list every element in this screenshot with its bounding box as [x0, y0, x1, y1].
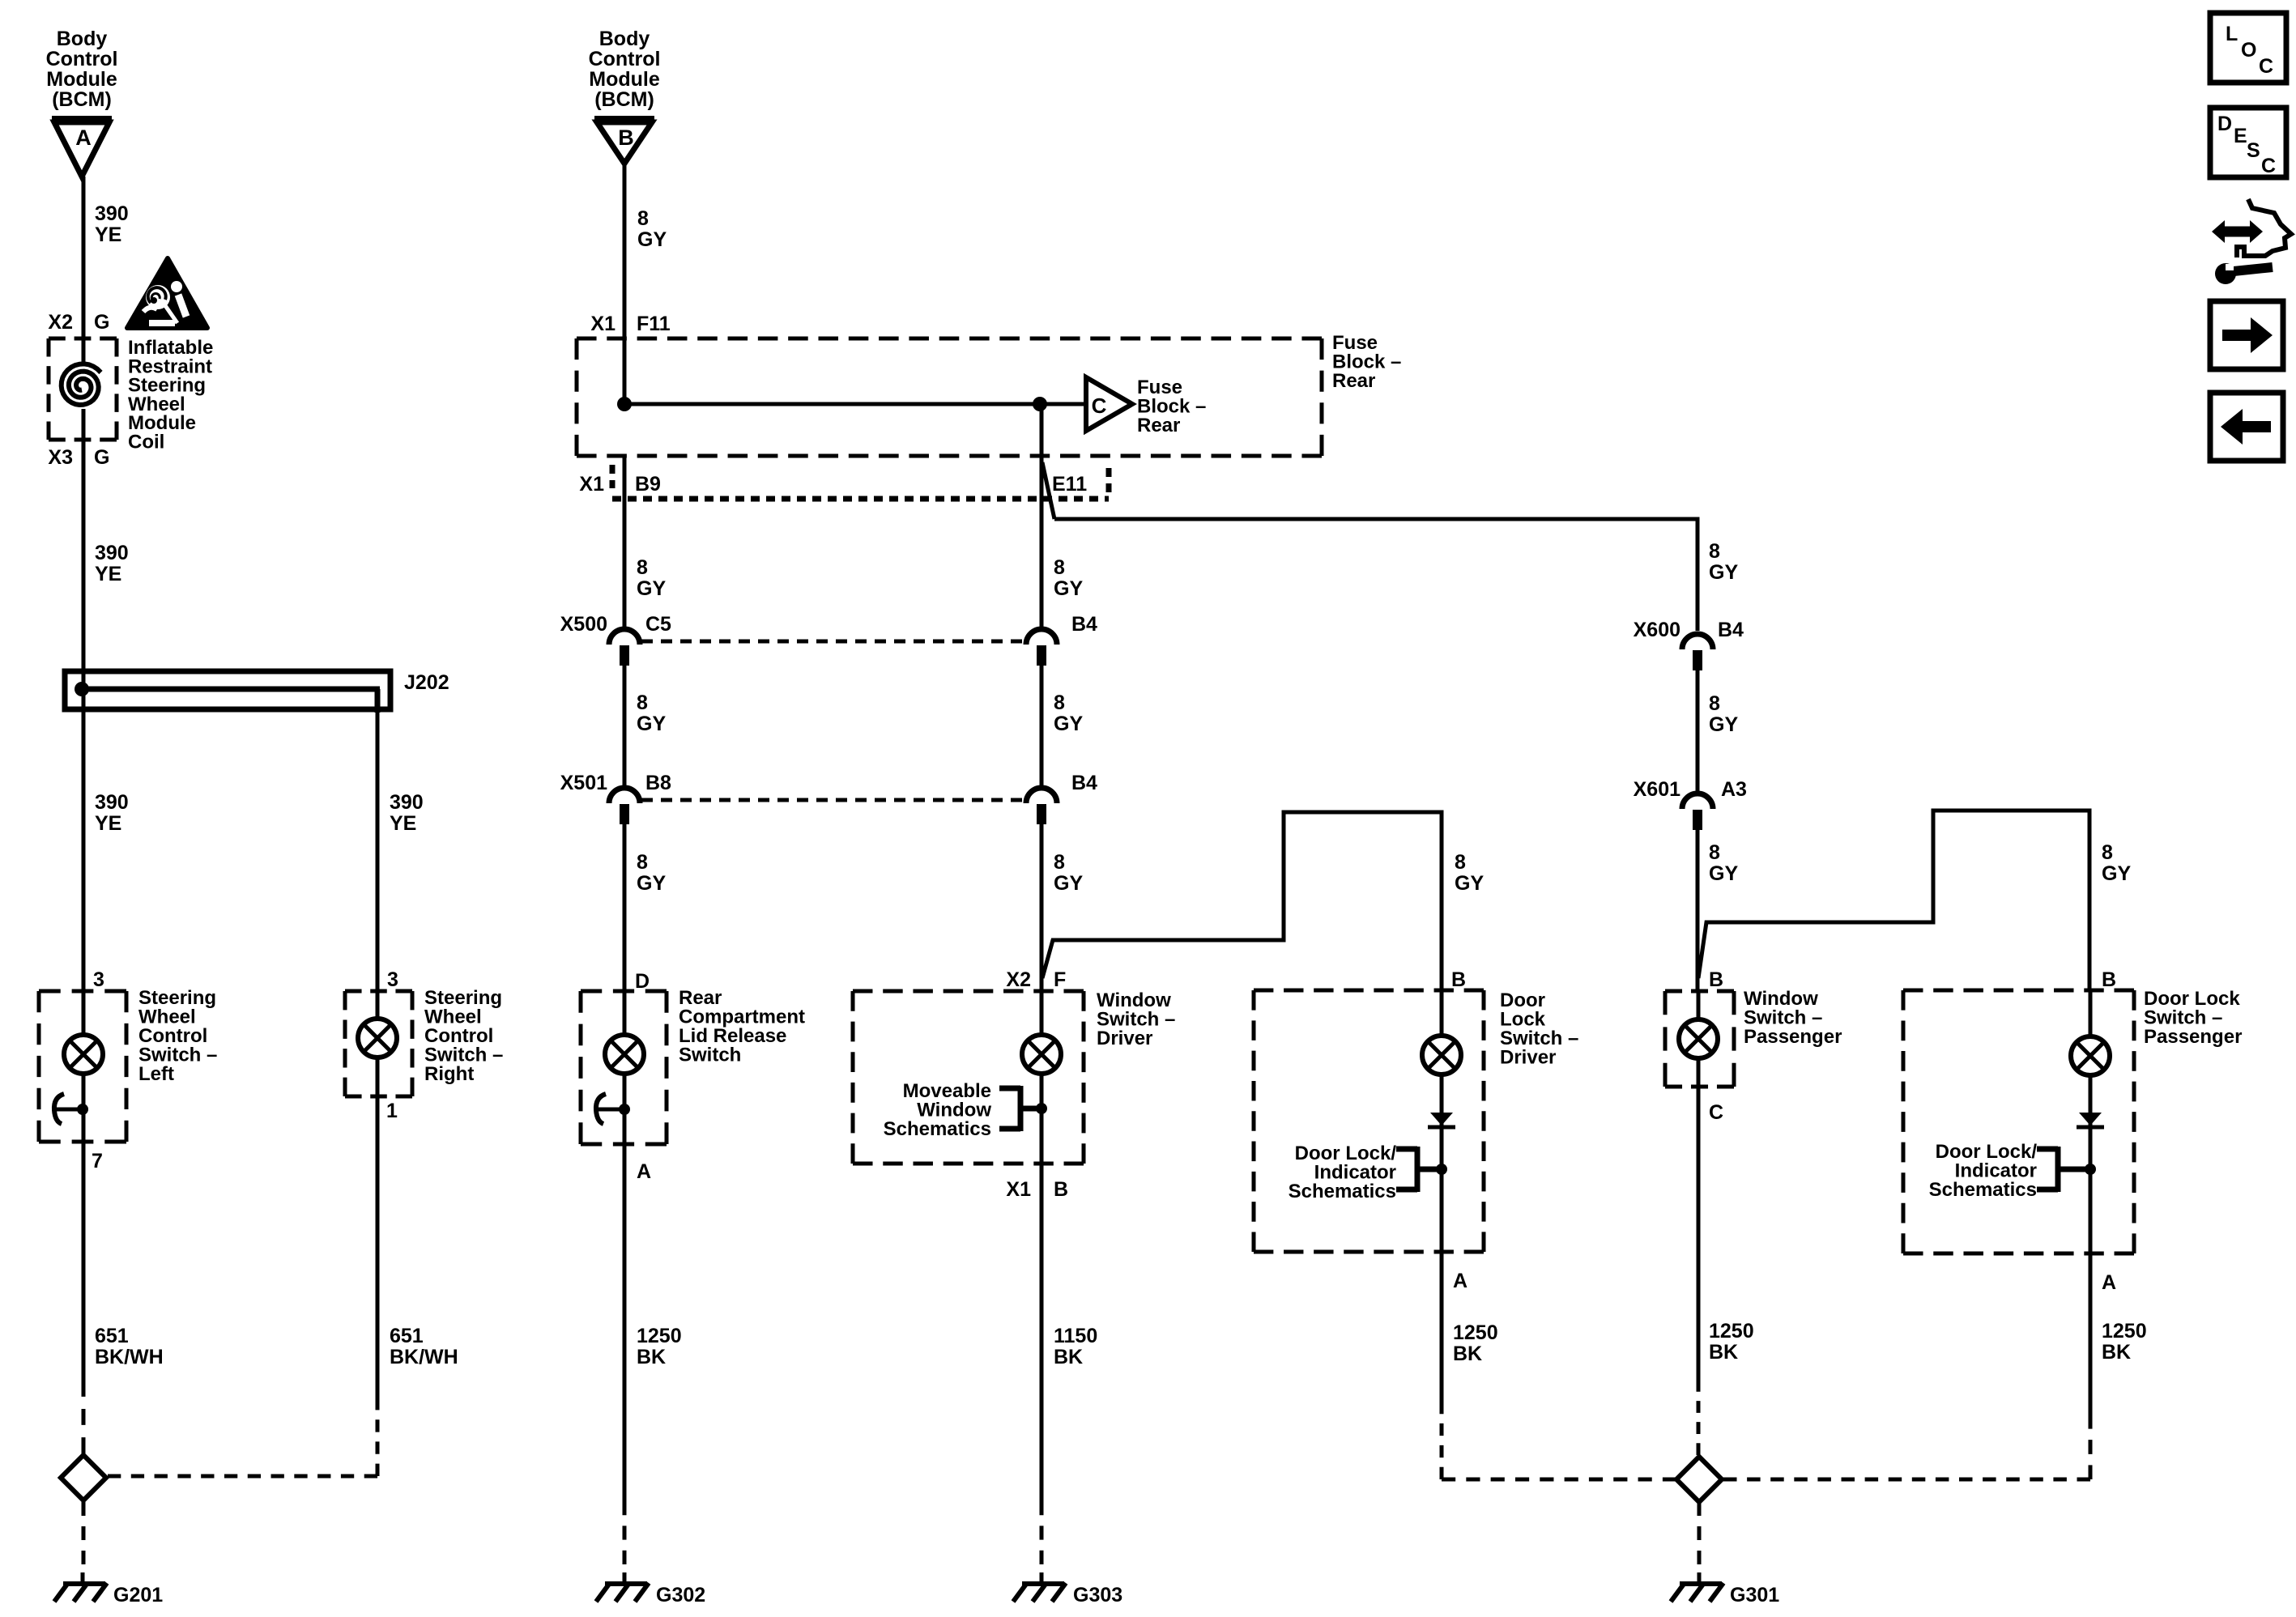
svg-text:C: C [2261, 155, 2276, 177]
svg-text:A: A [2102, 1271, 2116, 1294]
svg-text:1: 1 [386, 1100, 398, 1122]
diode door lock driver [1428, 1113, 1455, 1127]
wire E11 branch diagonal [1042, 462, 1054, 519]
svg-text:3: 3 [93, 968, 104, 991]
wire J202 to steering switch left [82, 709, 86, 991]
lamp window switch passenger [1679, 1019, 1718, 1058]
connector X501 B8 [609, 788, 640, 824]
fuse block rear dashed box [577, 338, 1322, 456]
svg-text:C: C [2259, 55, 2273, 78]
steering wheel control switch right box [345, 991, 412, 1096]
svg-text:G302: G302 [656, 1584, 705, 1606]
dashed connector line X500 row [641, 640, 1024, 644]
wire window passenger to splice [1697, 1087, 1701, 1380]
inflatable restraint coil box [49, 338, 117, 440]
ground G303 [1013, 1572, 1066, 1602]
switch contact steering left [54, 1094, 88, 1124]
wire B column below fuse block [623, 456, 627, 631]
wire door lock driver to splice [1440, 1252, 1444, 1402]
svg-text:X1: X1 [1006, 1178, 1031, 1201]
svg-text:A: A [637, 1160, 651, 1183]
lamp door lock driver [1422, 1036, 1461, 1074]
connector B4 (window driver harness) [1026, 629, 1057, 666]
junction node E11 branch [1033, 397, 1047, 411]
svg-text:F11: F11 [637, 313, 671, 335]
svg-text:G: G [94, 446, 109, 469]
svg-text:B: B [1054, 1178, 1068, 1201]
wire X601 to window passenger [1696, 830, 1700, 991]
svg-text:B4: B4 [1071, 772, 1097, 794]
lamp steering left [64, 1035, 103, 1074]
wire window driver to G303 [1040, 1164, 1044, 1501]
svg-text:A: A [1453, 1270, 1467, 1292]
svg-text:X500: X500 [560, 613, 607, 636]
svg-text:B4: B4 [1718, 619, 1744, 641]
lamp window switch driver [1022, 1035, 1061, 1074]
icon DESC box [2210, 108, 2286, 177]
svg-text:7: 7 [92, 1150, 103, 1172]
wire inside fuse block [624, 402, 1084, 406]
svg-text:X600: X600 [1634, 619, 1680, 641]
door lock switch driver box [1254, 990, 1484, 1252]
coil clockspring symbol [62, 364, 101, 405]
svg-text:E: E [2234, 125, 2247, 147]
dotted pass-through line [612, 496, 1109, 502]
splice diamond left [61, 1455, 106, 1500]
svg-text:A3: A3 [1721, 778, 1747, 801]
splice pack J202 [65, 671, 390, 713]
svg-text:BodyControlModule(BCM): BodyControlModule(BCM) [589, 28, 661, 111]
svg-text:X501: X501 [560, 772, 607, 794]
splice diamond right [1676, 1457, 1722, 1502]
wire left switch to splice [82, 1142, 86, 1381]
icon removal/installation (car + arrows + wrench) [2212, 199, 2291, 284]
svg-text:G303: G303 [1073, 1584, 1122, 1606]
svg-text:B: B [1709, 968, 1723, 991]
wire BCM B to fuse block [623, 164, 627, 404]
svg-text:X2: X2 [1006, 968, 1031, 991]
svg-text:C: C [1092, 394, 1107, 418]
svg-text:A: A [75, 126, 92, 150]
connector X601 A3 [1682, 794, 1713, 830]
svg-text:G301: G301 [1730, 1584, 1779, 1606]
svg-text:X2: X2 [48, 311, 73, 334]
rear compartment lid release switch box [581, 991, 667, 1144]
svg-text:B9: B9 [635, 473, 661, 496]
svg-text:E11: E11 [1052, 473, 1087, 496]
connector triangle BCM B [594, 119, 654, 164]
door lock schematics bracket passenger [2037, 1147, 2096, 1192]
svg-text:X601: X601 [1634, 778, 1680, 801]
ground G301 [1671, 1572, 1723, 1602]
wire coil to J202 [82, 440, 86, 713]
connector B4 row2 [1026, 788, 1057, 824]
svg-text:G: G [94, 311, 109, 334]
wire X500 to X501 [623, 666, 627, 789]
airbag warning symbol [127, 258, 207, 328]
svg-text:S: S [2247, 139, 2260, 162]
svg-text:X3: X3 [48, 446, 73, 469]
moveable window schematics bracket [999, 1086, 1047, 1131]
lamp rear lid switch [605, 1035, 644, 1074]
svg-text:X1: X1 [590, 313, 616, 335]
svg-text:G201: G201 [113, 1584, 163, 1606]
svg-text:X1: X1 [579, 473, 604, 496]
wire right switch to splice [376, 1096, 380, 1398]
switch contact rear lid [596, 1094, 630, 1124]
wire branch window passenger to door lock passenger [1698, 811, 2089, 990]
window switch driver box [853, 991, 1084, 1164]
lamp steering right [358, 1019, 397, 1057]
door lock switch passenger box [1903, 990, 2134, 1253]
connector X500 C5 [609, 629, 640, 666]
wire branch window driver to door lock driver [1042, 812, 1442, 991]
connector triangle C fuse block rear [1086, 377, 1132, 431]
svg-text:B: B [618, 126, 634, 150]
wire door lock passenger to splice [2089, 1253, 2093, 1415]
wire fuse block to B4 connector [1040, 404, 1044, 627]
wire E11 to X600 [1054, 519, 1698, 631]
svg-text:BodyControlModule(BCM): BodyControlModule(BCM) [46, 28, 118, 111]
lamp door lock passenger [2071, 1036, 2110, 1075]
wire B4 to window switch driver [1040, 824, 1044, 991]
icon arrow back [2210, 393, 2283, 461]
door lock schematics bracket driver [1396, 1147, 1447, 1192]
ground G302 [596, 1572, 649, 1602]
wire J202 to steering switch right [376, 709, 380, 991]
svg-text:L: L [2226, 23, 2238, 45]
svg-text:B4: B4 [1071, 613, 1097, 636]
wire B4 to B4 right column [1040, 666, 1044, 786]
steering wheel control switch left box [39, 991, 126, 1142]
wire BCM A to coil X2 [82, 177, 86, 340]
window switch passenger box [1665, 991, 1734, 1087]
svg-text:C: C [1709, 1101, 1723, 1124]
dashed connector line X501 row [641, 798, 1024, 802]
connector triangle BCM A [52, 119, 112, 177]
wire X501 to rear lid switch [623, 824, 627, 991]
svg-text:F: F [1054, 968, 1066, 991]
svg-text:C5: C5 [645, 613, 671, 636]
wire through coil box [82, 338, 86, 364]
svg-text:3: 3 [387, 968, 398, 991]
svg-text:O: O [2241, 39, 2256, 62]
icon LOC box [2210, 13, 2286, 83]
connector X600 B4 [1682, 634, 1713, 670]
junction node F11 [617, 397, 632, 411]
icon arrow next [2210, 301, 2283, 369]
ground G201 [54, 1572, 107, 1602]
svg-text:B: B [1451, 968, 1466, 991]
svg-text:B8: B8 [645, 772, 671, 794]
wire X600 to X601 [1696, 670, 1700, 794]
svg-text:D: D [2217, 113, 2232, 135]
svg-text:J202: J202 [404, 671, 449, 694]
diode door lock passenger [2077, 1113, 2104, 1127]
svg-text:B: B [2102, 968, 2116, 991]
wire rear lid to G302 [623, 1144, 627, 1501]
